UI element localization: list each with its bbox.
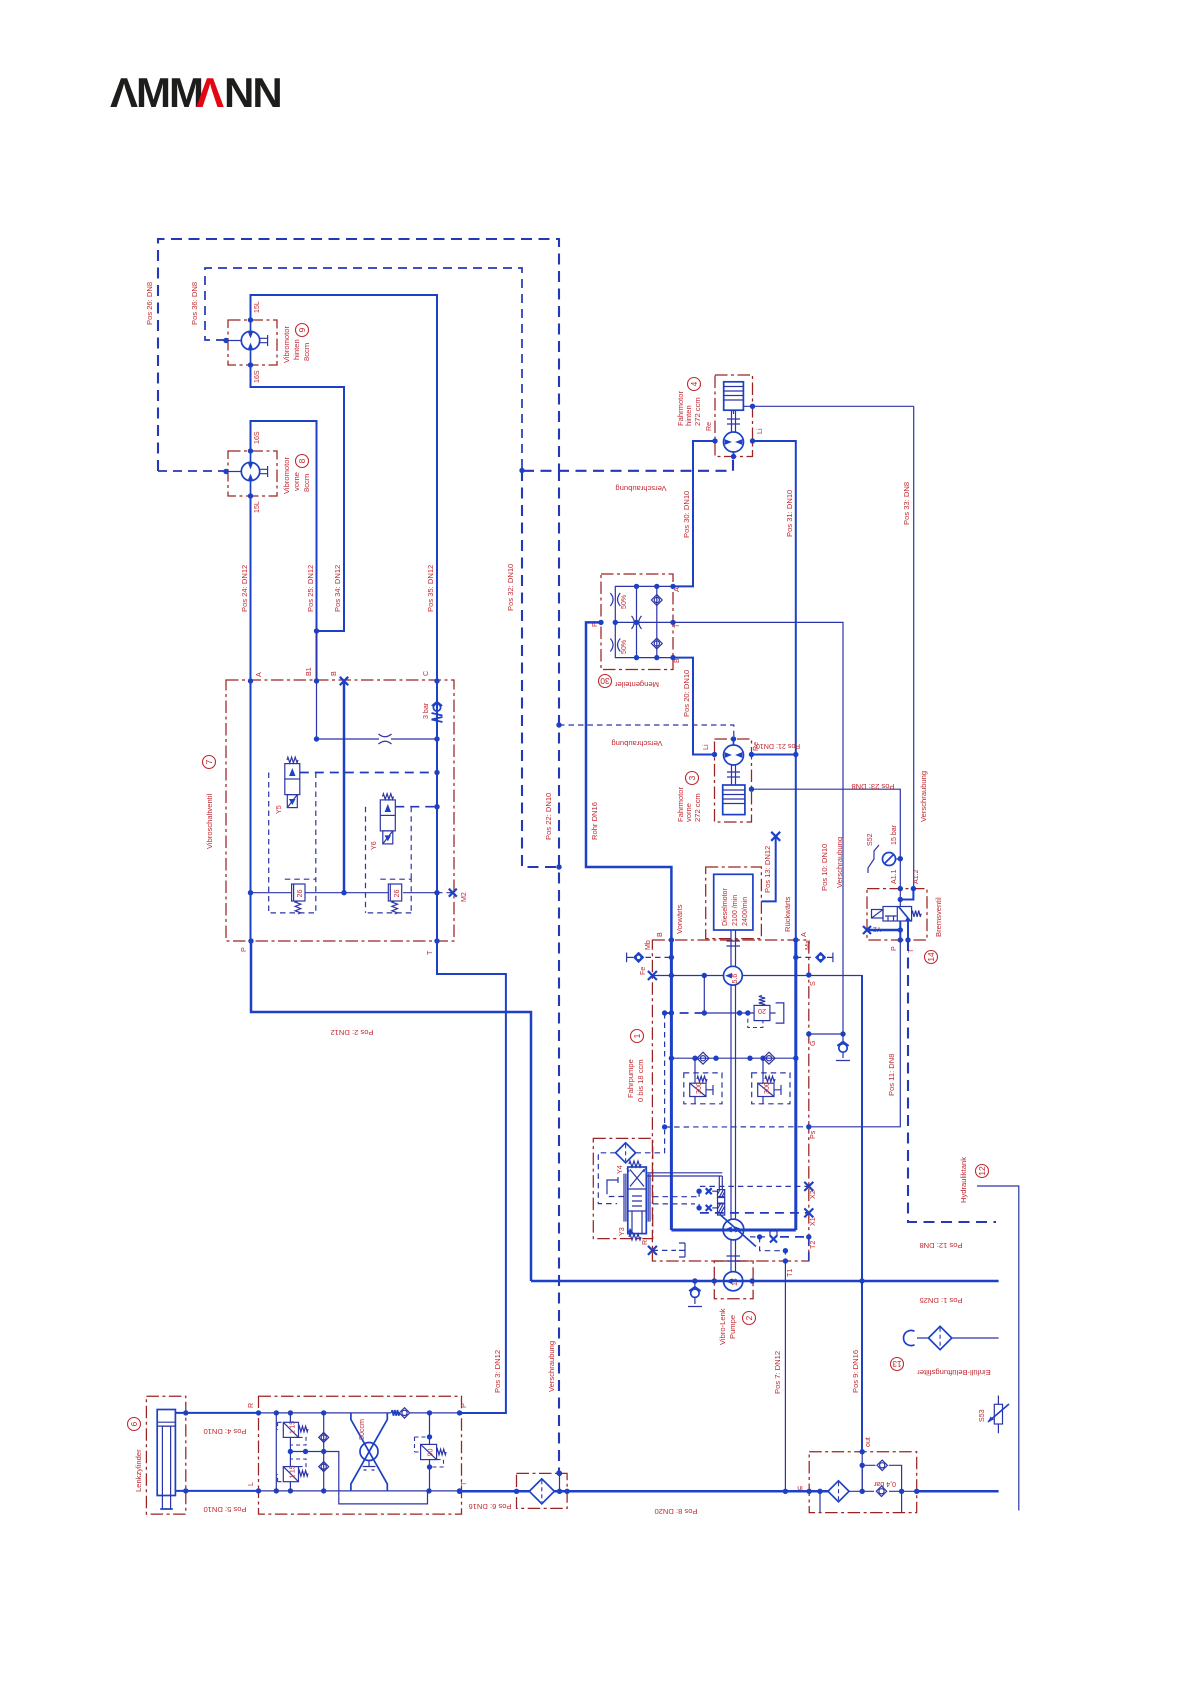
junction servo p2 [696, 1205, 701, 1210]
junction C-orifice [434, 736, 439, 741]
junction M line A [248, 890, 253, 895]
svg-text:S52: S52 [866, 833, 874, 846]
junction ret T [457, 1489, 462, 1494]
steering cylinder box [146, 1396, 185, 1514]
wire rear motor Li to A-line Pos 31 [753, 441, 796, 940]
svg-text:B: B [330, 671, 338, 676]
Ammann logo [110, 69, 281, 116]
junction brake M [898, 927, 903, 932]
svg-text:B: B [656, 932, 664, 937]
junction st b1 [274, 1488, 279, 1493]
wire Pos 25 DN12 front vibromotor 16S to valve port B1 [251, 421, 317, 680]
check valve G line [836, 1034, 850, 1061]
steering relief 115 upper [278, 1422, 309, 1445]
servo pilot left lower dashed [653, 1204, 699, 1208]
junction st L [256, 1488, 261, 1493]
wire pump A thick vertical [794, 940, 797, 1230]
svg-text:Pos 26: DN8: Pos 26: DN8 [145, 282, 154, 325]
svg-text:Pos 31: DN10: Pos 31: DN10 [785, 490, 794, 537]
svg-text:Verschraubung: Verschraubung [615, 484, 666, 493]
svg-text:Pos 22: DN10: Pos 22: DN10 [544, 793, 553, 840]
svg-text:hinten: hinten [292, 339, 301, 360]
svg-text:15L: 15L [253, 301, 261, 313]
svg-text:3: 3 [687, 775, 697, 780]
junction front vibromotor drain [223, 469, 228, 474]
svg-text:Bremsventil: Bremsventil [934, 897, 943, 937]
callout 3 [686, 772, 699, 785]
wire divider P to pump B Rohr DN16 [586, 622, 671, 940]
junction st T [457, 1488, 462, 1493]
wire Pos 24 DN12 front vibromotor 15L to valve port A [250, 496, 252, 680]
svg-text:15 bar: 15 bar [890, 824, 898, 845]
junction divider A [670, 584, 675, 589]
steering internal verticals [276, 1413, 429, 1491]
svg-text:Y6: Y6 [370, 841, 378, 850]
svg-text:26: 26 [296, 890, 304, 898]
drive motor rear box [715, 375, 753, 457]
svg-text:8ccm: 8ccm [302, 474, 311, 492]
junction B1 Pos34 merge [314, 628, 319, 633]
svg-text:Verschraubung: Verschraubung [611, 739, 662, 748]
callout 2 [743, 1312, 756, 1325]
svg-text:Ps: Ps [809, 1130, 817, 1139]
callout 7 [203, 756, 216, 769]
steering relief 115 lower [278, 1459, 309, 1482]
junction Pos7 join [783, 1489, 788, 1494]
svg-text:2100 /min: 2100 /min [731, 895, 739, 926]
wire valve internal B vertical thick [343, 681, 346, 893]
svg-text:vorne: vorne [684, 803, 693, 822]
junction T2 [806, 1234, 811, 1239]
svg-text:out: out [864, 1437, 872, 1447]
brake valve spring [912, 911, 922, 917]
drive pump box [652, 940, 808, 1261]
wire Pos 2 DN12 from valve P to suction manifold [251, 941, 531, 1281]
svg-text:Pos 21: DN10: Pos 21: DN10 [756, 742, 800, 750]
svg-text:R: R [641, 1240, 649, 1245]
pilot filter dashed left [598, 1153, 617, 1204]
junction front motor Li [712, 752, 717, 757]
junction A-line Re front [793, 752, 798, 757]
wire drain dashed stub front vibromotor [158, 470, 226, 472]
svg-text:Re: Re [705, 422, 713, 431]
engine shaft lower [731, 985, 736, 1219]
junction front vibromotor 15L [248, 493, 253, 498]
junction drain filter r2 [564, 1489, 569, 1494]
pilot dashed Y6 to C [395, 806, 437, 808]
wire front brake port Pos 23 DN8 to S52 [752, 789, 901, 888]
svg-text:Pos 36: DN8: Pos 36: DN8 [190, 282, 199, 325]
svg-text:4: 4 [689, 381, 699, 386]
svg-text:Verschraubung: Verschraubung [919, 771, 928, 822]
steering check upper [319, 1432, 329, 1442]
svg-text:T2: T2 [809, 1241, 817, 1249]
junction drain filter l [514, 1489, 519, 1494]
anti cavitation check on manifold [688, 1281, 702, 1307]
junction M line B [341, 890, 346, 895]
svg-text:3 bar: 3 bar [422, 702, 430, 719]
junction drain x559 y867 [556, 864, 561, 869]
svg-text:Vibroschaltventil: Vibroschaltventil [205, 794, 214, 849]
pilot dashed box Y5 [269, 773, 316, 913]
orifice lower 50% [610, 639, 613, 652]
svg-text:Λ: Λ [196, 69, 224, 116]
svg-text:Pos 4: DN10: Pos 4: DN10 [203, 1427, 246, 1436]
port mark Pos13 [771, 832, 780, 841]
svg-text:Rohr DN16: Rohr DN16 [590, 802, 599, 840]
port mark brake M [863, 926, 871, 934]
wire front motor Re to A-line [752, 754, 796, 756]
return filter box [809, 1452, 917, 1513]
flow divider internal lines [615, 586, 673, 657]
return filter internals [809, 1465, 917, 1512]
junction brake internal [898, 897, 903, 902]
wire pump B thick vertical [670, 940, 673, 1230]
svg-text:Vibromotor: Vibromotor [282, 326, 291, 363]
svg-text:Pos 20: DN10: Pos 20: DN10 [682, 670, 691, 717]
junction rear motor Li [750, 438, 755, 443]
svg-text:12: 12 [977, 1166, 987, 1176]
junction front vibromotor 16S [248, 448, 253, 453]
junction pump Ps [806, 1124, 811, 1129]
svg-text:vorne: vorne [292, 472, 301, 491]
svg-text:P: P [460, 1403, 468, 1408]
junction st r90b [427, 1464, 432, 1469]
svg-text:Pos 7: DN12: Pos 7: DN12 [773, 1351, 782, 1394]
engine shaft [727, 930, 741, 966]
svg-text:Verschraubung: Verschraubung [835, 837, 844, 888]
solenoid valve Y5 [285, 757, 300, 807]
cartridge left dashed box [269, 879, 316, 913]
junction front motor drain [731, 736, 736, 741]
junction row r1 [760, 1056, 765, 1061]
servo piston [646, 1173, 724, 1215]
svg-text:2400/min: 2400/min [741, 897, 749, 926]
temperature sensor S53 [988, 1396, 1009, 1434]
vibromotor rear M9 symbol [228, 320, 268, 365]
junction rf r2 [914, 1489, 919, 1494]
brake valve 3/2 body [883, 907, 912, 922]
wire brake T drain Pos 12 DN8 to tank [908, 940, 996, 1222]
junction pump A [793, 937, 798, 942]
svg-text:A: A [800, 932, 808, 937]
wire Pos 33 DN8 vertical to brake valve A1.2 [913, 406, 915, 888]
steering unit box [259, 1396, 462, 1514]
wire steering P out [460, 1412, 506, 1414]
svg-text:300: 300 [695, 1082, 703, 1094]
wire drain outer dashed loop top [158, 239, 559, 471]
junction T1 [783, 1258, 788, 1263]
svg-text:M2: M2 [460, 892, 468, 902]
svg-text:Y3: Y3 [618, 1227, 626, 1236]
junction G check [840, 1031, 845, 1036]
svg-text:0,4 bar: 0,4 bar [873, 1480, 896, 1488]
junction row l2 [713, 1056, 718, 1061]
junction S52 [898, 856, 903, 861]
pilot plug bracket [607, 1177, 628, 1197]
wire T2 to box edge dashed [808, 1237, 810, 1261]
svg-text:5.6: 5.6 [731, 974, 739, 984]
junction divider internal top1 [634, 584, 639, 589]
svg-text:Fe: Fe [639, 967, 647, 975]
junction brake T [905, 937, 910, 942]
junction st b3 [321, 1488, 326, 1493]
svg-text:Dieselmotor: Dieselmotor [721, 888, 729, 926]
svg-text:30: 30 [600, 676, 610, 686]
svg-text:272 ccm: 272 ccm [693, 397, 702, 426]
junction pilot B y1013 [669, 1010, 674, 1015]
port B plug mark [340, 677, 348, 685]
svg-text:Y4: Y4 [616, 1165, 624, 1174]
svg-text:8ccm: 8ccm [302, 343, 311, 361]
steering pump shaft [727, 1240, 741, 1272]
svg-text:T: T [460, 1481, 468, 1486]
svg-text:13: 13 [892, 1359, 902, 1369]
svg-text:Pos 13: DN12: Pos 13: DN12 [763, 846, 772, 893]
junction drain filter top [557, 1471, 562, 1476]
svg-text:Pos 12: DN8: Pos 12: DN8 [919, 1241, 962, 1250]
steering P check with spring [392, 1408, 410, 1418]
junction rear vibromotor 15L [248, 317, 253, 322]
junction A1.2 [911, 886, 916, 891]
junction pump G [806, 1031, 811, 1036]
drive motor front M3 symbol [724, 745, 744, 765]
wire S suction Pos 9 DN16 [861, 975, 863, 1452]
callout 8 [296, 455, 309, 468]
solenoid valve Y6 [380, 794, 395, 844]
wire cylinder L port [175, 1490, 258, 1492]
junction drain x522 y470 [519, 468, 524, 473]
svg-text:Pos 24: DN12: Pos 24: DN12 [240, 565, 249, 612]
proportional valve Y3 Y4 [624, 1161, 650, 1240]
svg-text:Li: Li [756, 428, 764, 434]
svg-text:272 ccm: 272 ccm [693, 793, 702, 822]
port M2 stub [437, 892, 453, 894]
svg-text:50%: 50% [620, 594, 628, 609]
junction rf bypass [860, 1463, 865, 1468]
wire R dashed plug [652, 1249, 676, 1251]
wire suction manifold Pos 1 DN25 [531, 1280, 999, 1283]
svg-text:C: C [422, 671, 430, 676]
junction front motor Re [749, 752, 754, 757]
pilot filter [616, 1143, 636, 1163]
junction rear motor Re [712, 438, 717, 443]
svg-text:Verschraubung: Verschraubung [547, 1341, 556, 1392]
junction A1.1 [898, 886, 903, 891]
steering relief 90 [415, 1437, 447, 1467]
steering mid gallery to tank [290, 1452, 427, 1504]
svg-text:Pos 32: DN10: Pos 32: DN10 [506, 564, 515, 611]
callout 14 [925, 951, 938, 964]
svg-text:Pos 8: DN20: Pos 8: DN20 [654, 1507, 697, 1516]
check valve divider lower [651, 638, 662, 649]
junction drain x559 y1473 [556, 1470, 561, 1475]
junction st t2 [288, 1410, 293, 1415]
svg-text:Pos 23: DN8: Pos 23: DN8 [851, 782, 894, 791]
svg-text:1: 1 [632, 1033, 642, 1038]
junction rf l2 [817, 1489, 822, 1494]
wire pump loop bottom [671, 1229, 795, 1232]
junction port T [434, 938, 439, 943]
junction divider P [598, 620, 603, 625]
junction boost B [669, 973, 674, 978]
junction pilot x664 y1127 [662, 1124, 667, 1129]
wire drain inner dashed box Pos 36 [205, 268, 522, 470]
relief 300 right dashed box [752, 1073, 790, 1104]
junction st r90a [427, 1434, 432, 1439]
cartridge right dashed box [366, 879, 412, 913]
wire valve internal C vertical [436, 680, 438, 941]
callout 9 [296, 324, 309, 337]
svg-text:Vibromotor: Vibromotor [282, 457, 291, 494]
wire case drain to T1 dashed [760, 1237, 786, 1261]
junction st t3 [321, 1410, 326, 1415]
svg-text:300: 300 [763, 1082, 771, 1094]
steering pump box [714, 1261, 753, 1299]
svg-text:90: 90 [427, 1449, 435, 1457]
drive motor front shaft [727, 765, 740, 785]
wire brake valve gauge line [867, 929, 900, 932]
orifice upper 50% [610, 593, 613, 606]
return filter outlet check [876, 1486, 886, 1496]
junction st R [256, 1410, 261, 1415]
svg-text:Ma: Ma [804, 940, 812, 950]
steering internal bottom line [259, 1490, 460, 1492]
junction relief20 d1 [737, 1010, 742, 1015]
wire T1 case drain Pos 7 DN12 [784, 1261, 786, 1491]
callout 12 [976, 1165, 989, 1178]
svg-text:Mengenteiler: Mengenteiler [615, 680, 659, 689]
junction row A [793, 1056, 798, 1061]
wire X2 dashed to port [700, 1185, 809, 1187]
junction rf r1 [899, 1489, 904, 1494]
vibromotor front box [228, 451, 277, 496]
svg-text:L: L [247, 1482, 255, 1486]
pilot dashed box Y6 [366, 807, 412, 913]
junction B orifice mid [314, 736, 319, 741]
svg-text:A1.2: A1.2 [912, 869, 920, 884]
svg-text:26: 26 [393, 890, 401, 898]
svg-text:9: 9 [297, 327, 307, 332]
junction rear motor drain [731, 454, 736, 459]
wire cylinder R port [175, 1412, 258, 1414]
junction manifold S [859, 1278, 864, 1283]
steering check lower [319, 1462, 329, 1472]
svg-text:P: P [240, 947, 248, 952]
svg-text:Vorwärts: Vorwärts [675, 904, 684, 934]
diesel engine body [714, 874, 753, 930]
svg-text:Li: Li [702, 744, 710, 750]
port R mark [648, 1246, 657, 1255]
junction divider internal midP [613, 620, 618, 625]
junction st m3 [321, 1449, 326, 1454]
junction cyl L [183, 1488, 188, 1493]
wire high pressure check row [671, 1057, 795, 1059]
svg-text:R: R [247, 1403, 255, 1408]
junction divider internal top2 [654, 584, 659, 589]
drive motor front box [715, 739, 752, 822]
junction cyl R [183, 1410, 188, 1415]
svg-text:A: A [255, 672, 263, 677]
steering cylinder [157, 1410, 175, 1510]
steering pump symbol [724, 1272, 743, 1291]
charge relief valve 20 [704, 976, 784, 1028]
junction st t4 [427, 1410, 432, 1415]
wire valve T to steering P Pos 3 DN12 [437, 941, 506, 1413]
junction port C [434, 678, 439, 683]
junction pilot x664 y1013 [662, 1010, 667, 1015]
wire return line to tank [917, 1490, 999, 1493]
hydraulic tank outline [977, 1186, 1019, 1511]
wire divider A to rear motor Re Pos 30 [673, 441, 715, 586]
svg-text:B1: B1 [305, 667, 313, 676]
check valve loop right [763, 1052, 775, 1064]
svg-text:X1: X1 [809, 1217, 817, 1226]
svg-text:16S: 16S [253, 431, 261, 444]
orifice servo 1 [706, 1188, 712, 1194]
svg-text:Vibro-Lenk: Vibro-Lenk [718, 1308, 727, 1345]
check valve divider upper [651, 595, 662, 606]
junction row r2 [747, 1056, 752, 1061]
junction Mb B [669, 955, 674, 960]
junction boost tap [702, 973, 707, 978]
diesel engine box [706, 867, 762, 939]
wire divider T to pump G Pos 10 [673, 622, 843, 1034]
vibro switching valve box [226, 680, 454, 941]
junction pump S [806, 972, 811, 977]
svg-text:Pos 35: DN12: Pos 35: DN12 [426, 565, 435, 612]
wire M2 internal line [251, 892, 438, 894]
junction servo p1 [696, 1189, 701, 1194]
port mark X1 [804, 1208, 813, 1217]
junction st b4 [426, 1488, 431, 1493]
svg-text:50%: 50% [620, 639, 628, 654]
drive motor front gearbox [723, 785, 745, 815]
junction divider T [670, 620, 675, 625]
servo valve appendix box [593, 1138, 652, 1238]
svg-text:Pos 1: DN25: Pos 1: DN25 [919, 1296, 962, 1305]
svg-text:7: 7 [204, 759, 214, 764]
svg-text:Pumpe: Pumpe [728, 1315, 737, 1339]
svg-text:S: S [809, 981, 817, 986]
check valve 3 bar on C line [432, 702, 443, 722]
svg-text:6: 6 [129, 1421, 139, 1426]
junction port B1 [314, 678, 319, 683]
junction drain2 [783, 1248, 788, 1253]
junction st m2 [303, 1449, 308, 1454]
svg-text:Pos 11: DN8: Pos 11: DN8 [887, 1054, 896, 1097]
pilot dashed to relief 20 [665, 1012, 705, 1014]
junction row B [669, 1056, 674, 1061]
junction rf out [860, 1449, 865, 1454]
svg-text:S53: S53 [978, 1409, 986, 1422]
wire X1 dashed to port [700, 1212, 809, 1214]
callout 1 [631, 1030, 644, 1043]
junction drain filter r1 [557, 1489, 562, 1494]
svg-text:14: 14 [926, 952, 936, 962]
callout 4 [688, 378, 701, 391]
svg-text:2: 2 [744, 1315, 754, 1320]
junction drain1 [757, 1234, 762, 1239]
svg-text:NN: NN [224, 69, 281, 116]
junction manifold pumpL [712, 1278, 717, 1283]
drive motor rear M4 symbol [724, 432, 744, 452]
pilot dashed Y5 to C [300, 772, 437, 774]
svg-text:Pos 9: DN16: Pos 9: DN16 [851, 1350, 860, 1393]
pilot dashed Ps network [665, 1013, 809, 1127]
svg-text:Pos 3: DN12: Pos 3: DN12 [493, 1350, 502, 1393]
junction pilot C y806 [434, 804, 439, 809]
